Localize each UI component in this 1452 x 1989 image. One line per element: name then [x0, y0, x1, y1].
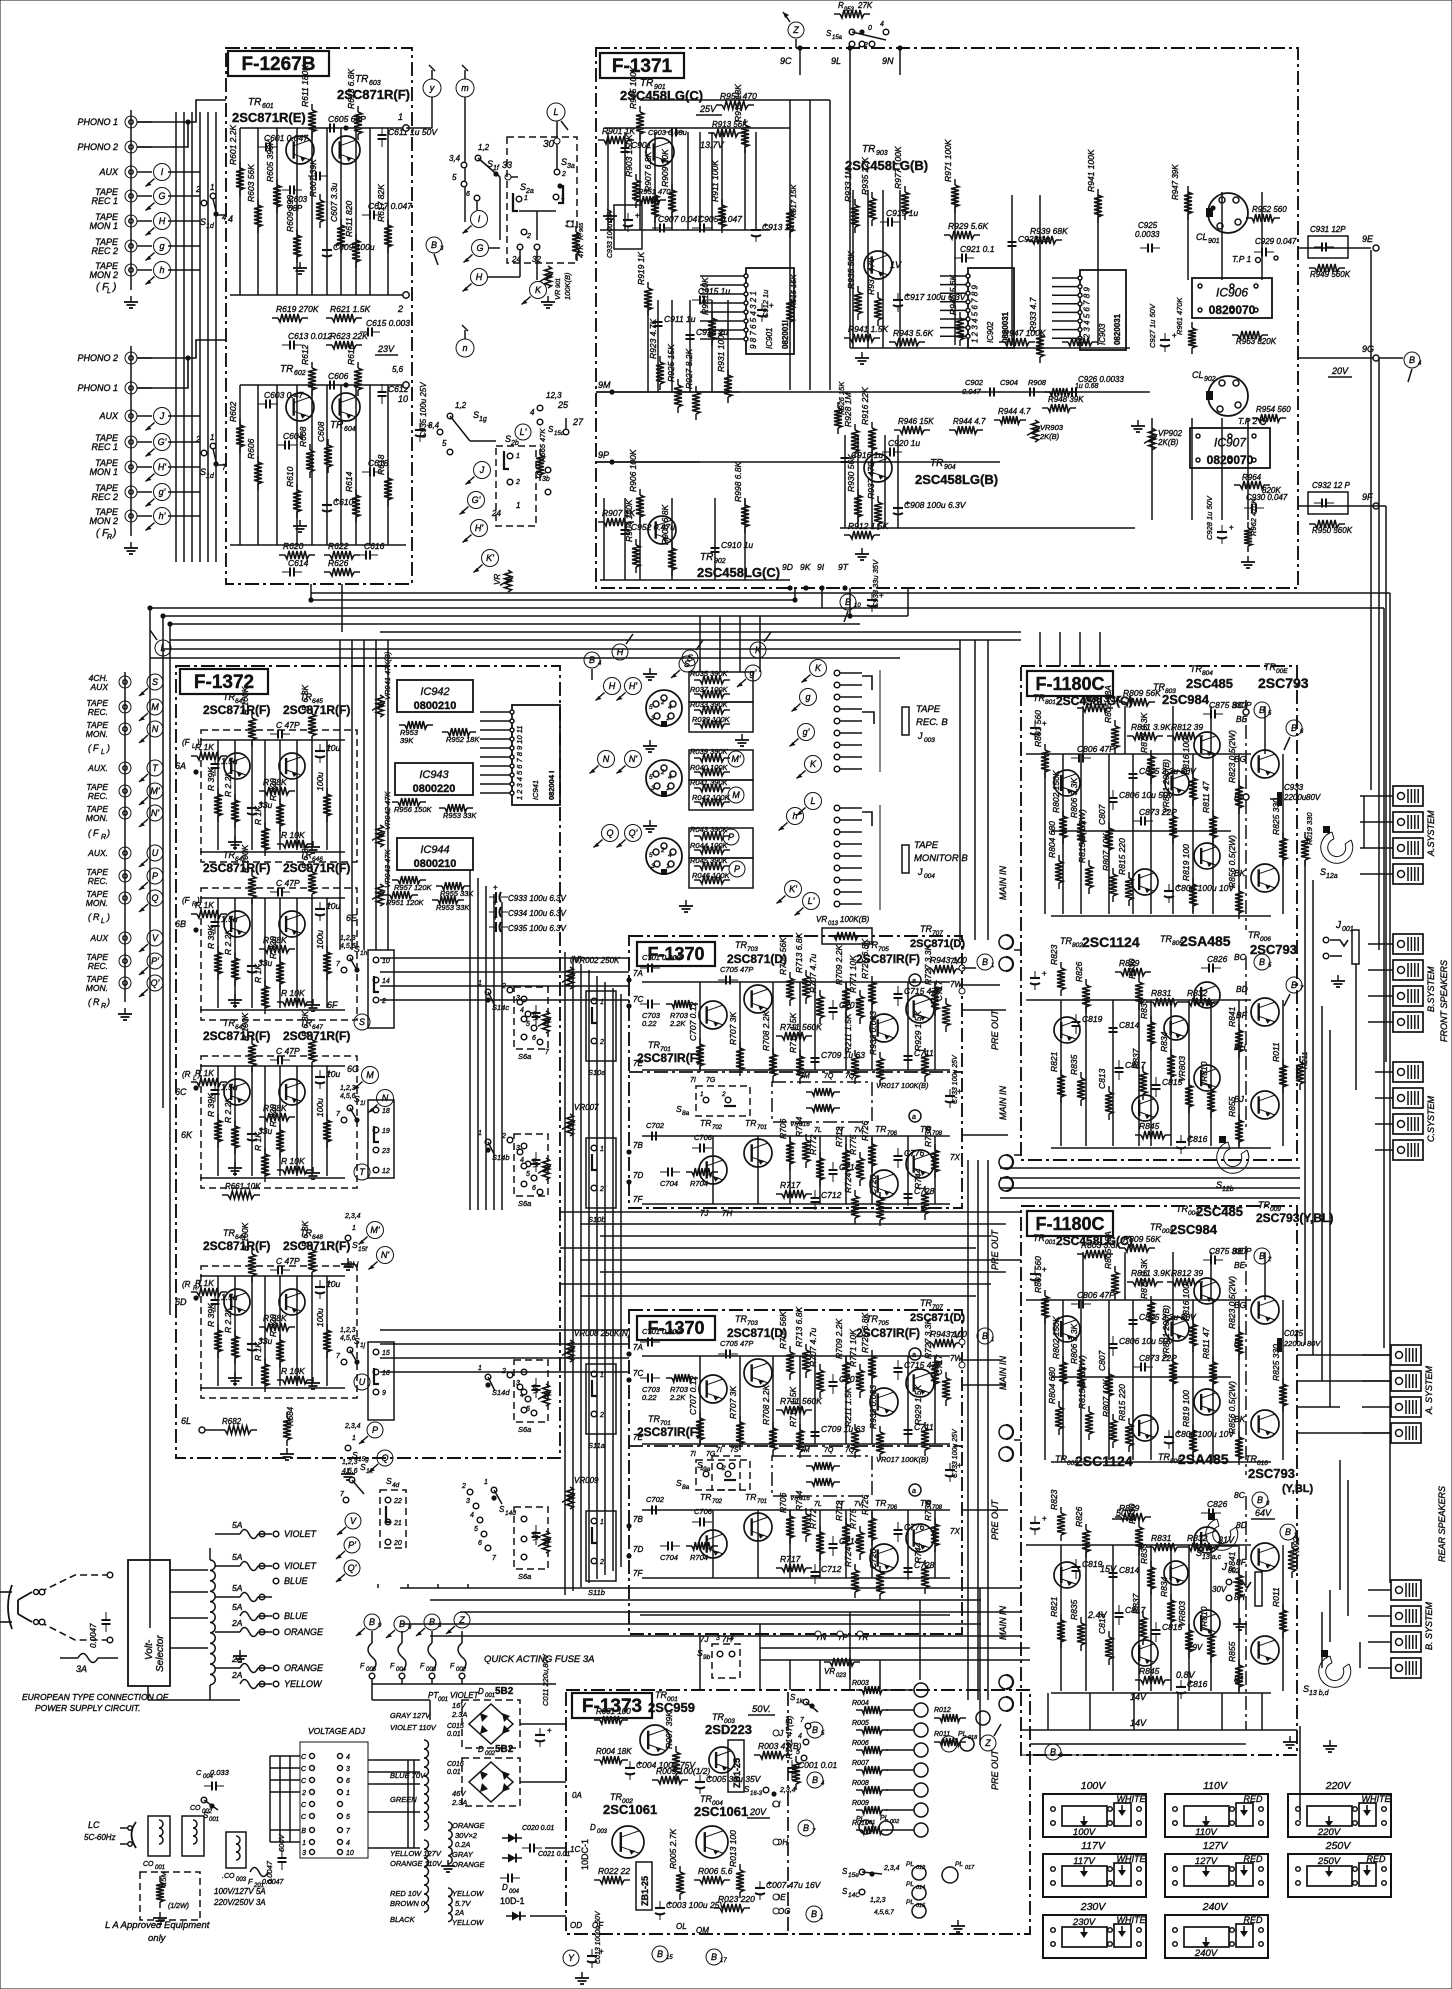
svg-text:1: 1 [516, 501, 520, 510]
lower rail wires [240, 384, 406, 386]
svg-text:R724: R724 [843, 1172, 853, 1193]
voltage selector panel 230V [1043, 1915, 1146, 1958]
svg-text:PHONO 2: PHONO 2 [77, 353, 118, 363]
svg-text:2A: 2A [454, 1908, 464, 1917]
svg-text:2SC984: 2SC984 [1162, 692, 1210, 707]
svg-text:R011: R011 [934, 1731, 950, 1738]
svg-text:R: R [576, 234, 585, 240]
R903 5.6K etc under IC902 [999, 341, 1005, 343]
svg-text:0820070: 0820070 [1207, 453, 1254, 467]
svg-text:RED: RED [1243, 1794, 1263, 1804]
svg-text:TR: TR [862, 144, 875, 155]
svg-text:C826: C826 [1207, 954, 1228, 964]
svg-text:R004 18K: R004 18K [596, 1747, 632, 1756]
svg-text:2SC1124: 2SC1124 [1082, 934, 1140, 950]
TR904 components [844, 450, 846, 458]
H socket resistor rows [689, 672, 753, 702]
svg-text:AUX: AUX [90, 682, 109, 692]
svg-text:CL: CL [1192, 370, 1204, 380]
svg-text:ZB1-25: ZB1-25 [640, 1876, 650, 1906]
svg-text:23: 23 [381, 1148, 390, 1155]
svg-text:13 a,c: 13 a,c [1202, 1554, 1222, 1561]
svg-text:(: ( [88, 828, 92, 838]
connector B2 lower [1280, 1524, 1296, 1540]
wire bundle from F-1372 ICs down [469, 870, 471, 1210]
svg-text:7D: 7D [633, 1171, 643, 1180]
svg-text:1h: 1h [360, 950, 368, 957]
svg-text:R937 470: R937 470 [866, 462, 876, 499]
svg-text:TR: TR [280, 364, 293, 375]
R954 560 [1252, 417, 1258, 419]
svg-text:7S: 7S [730, 1447, 739, 1454]
svg-text:TR: TR [1060, 936, 1072, 946]
svg-text:39K: 39K [400, 736, 414, 745]
svg-text:13 b,d: 13 b,d [1309, 1690, 1330, 1697]
svg-text:R037 100K: R037 100K [690, 685, 729, 694]
svg-text:+: + [493, 883, 498, 892]
svg-text:R713 6.8K: R713 6.8K [794, 933, 804, 973]
svg-text:12: 12 [382, 1168, 390, 1175]
svg-text:7J: 7J [700, 1209, 709, 1218]
svg-text:R803 3.3K: R803 3.3K [1081, 1240, 1121, 1250]
svg-text:R823: R823 [1049, 944, 1059, 965]
horizontal buses below F-1370 #2 [400, 1587, 1021, 1589]
svg-text:2SC871R(F): 2SC871R(F) [283, 1239, 350, 1253]
svg-text:R856 0.5(2W): R856 0.5(2W) [1227, 1381, 1237, 1434]
svg-text:R617 82K: R617 82K [376, 184, 386, 222]
svg-text:K: K [755, 645, 762, 655]
svg-text:B. SYSTEM: B. SYSTEM [1424, 1601, 1434, 1650]
svg-text:4d: 4d [392, 1482, 400, 1489]
svg-text:R943 5.6K: R943 5.6K [893, 328, 933, 338]
svg-text:L: L [193, 1076, 196, 1082]
svg-text:5: 5 [526, 1021, 530, 1028]
svg-text:4: 4 [346, 1840, 350, 1847]
svg-text:g': g' [750, 668, 757, 678]
svg-text:PHONO 1: PHONO 1 [77, 383, 118, 393]
svg-text:002: 002 [890, 1819, 899, 1825]
horizontal buses between F-1370 sections [560, 1211, 1021, 1213]
svg-text:R945 5.6K: R945 5.6K [948, 275, 958, 315]
R661 10K R680 resistors [222, 1194, 228, 1196]
svg-text:68P: 68P [288, 204, 303, 213]
svg-text:R954 560: R954 560 [1256, 405, 1291, 414]
svg-text:R772: R772 [808, 1508, 818, 1529]
svg-text:WHITE: WHITE [1362, 1794, 1392, 1804]
svg-text:20: 20 [393, 1540, 402, 1547]
svg-text:R 6.8K: R 6.8K [300, 1221, 310, 1247]
speaker terminals B system rear [1391, 1580, 1421, 1600]
svg-text:R616: R616 [346, 344, 356, 365]
svg-text:1g: 1g [479, 416, 487, 423]
svg-text:0.01: 0.01 [447, 1731, 461, 1738]
svg-text:VR007: VR007 [574, 1103, 599, 1112]
svg-text:): ) [112, 528, 116, 539]
R952 560 [1246, 217, 1252, 219]
svg-text:G: G [158, 191, 165, 201]
svg-text:10DC-1: 10DC-1 [580, 1839, 590, 1870]
svg-text:B: B [1259, 957, 1265, 967]
svg-text:PHONO 1: PHONO 1 [77, 117, 118, 127]
svg-text:R943 100: R943 100 [930, 955, 967, 965]
R947 39K [1187, 186, 1189, 192]
svg-text:2200u: 2200u [1283, 793, 1307, 802]
svg-text:0.0033: 0.0033 [1135, 230, 1160, 239]
svg-text:4: 4 [470, 1512, 474, 1519]
svg-text:B: B [812, 1775, 818, 1785]
svg-text:R708 2.2K: R708 2.2K [761, 1011, 771, 1051]
svg-text:B: B [982, 957, 988, 967]
svg-text:C935 100u 25V: C935 100u 25V [419, 382, 428, 438]
svg-text:1: 1 [600, 1146, 604, 1153]
connector circles L h K' L' left of J004 [805, 793, 822, 810]
svg-text:C021 0.01: C021 0.01 [538, 1851, 570, 1858]
svg-text:C938 33u 35V: C938 33u 35V [871, 559, 880, 608]
svg-text:(: ( [88, 743, 92, 753]
board F-1373 label box [572, 1693, 652, 1718]
second stage RC ladder [657, 314, 659, 322]
svg-text:4: 4 [598, 661, 602, 667]
svg-text:117V: 117V [1073, 1856, 1096, 1867]
svg-text:H': H' [158, 462, 166, 472]
svg-text:B: B [301, 1828, 306, 1835]
svg-text:TR: TR [355, 74, 368, 85]
svg-text:9N: 9N [882, 56, 894, 66]
svg-text:1u 0.68: 1u 0.68 [1075, 383, 1098, 390]
capacitor 0.0047 euro [105, 1612, 107, 1620]
svg-text:TR: TR [1150, 1222, 1162, 1232]
svg-text:R931 100K: R931 100K [716, 329, 726, 372]
svg-text:4,5,6,7: 4,5,6,7 [874, 1909, 894, 1916]
speaker terminals A system rear [1391, 1345, 1421, 1365]
svg-text:AUX.: AUX. [87, 848, 108, 858]
svg-text:R826: R826 [1074, 961, 1084, 982]
svg-text:D: D [478, 1687, 484, 1696]
svg-text:R 1K: R 1K [253, 1342, 263, 1361]
svg-text:C928 1u 50V: C928 1u 50V [1205, 495, 1214, 540]
svg-text:TR: TR [1055, 1454, 1067, 1464]
svg-text:7A: 7A [633, 969, 643, 978]
svg-text:TR: TR [1258, 1200, 1270, 1210]
svg-text:5C-60Hz: 5C-60Hz [84, 1833, 116, 1842]
svg-text:R708 2.2K: R708 2.2K [761, 1385, 771, 1425]
ORANGE 30Vx2 winding [448, 1822, 452, 1830]
svg-text:YELLOW: YELLOW [452, 1918, 484, 1927]
svg-text:TR: TR [223, 1228, 235, 1238]
FR phono wires into board [137, 340, 226, 358]
svg-text:C: C [301, 1766, 307, 1773]
svg-text:H: H [609, 681, 616, 691]
ZB1-25 block left [636, 1862, 652, 1910]
svg-text:7Q: 7Q [824, 1447, 834, 1454]
secondary transformer winding [424, 1740, 429, 1749]
connector B7 lower [1286, 977, 1302, 993]
svg-text:R805 18A: R805 18A [1103, 685, 1113, 723]
svg-text:10: 10 [398, 394, 408, 404]
svg-text:H': H' [475, 523, 483, 533]
svg-text:4: 4 [798, 1733, 802, 1740]
svg-text:R744: R744 [913, 1542, 923, 1563]
svg-text:R877 3.3K: R877 3.3K [1139, 713, 1149, 753]
svg-text:082004 I: 082004 I [547, 771, 556, 800]
CO001 CO002 coil boxes [148, 1816, 170, 1856]
svg-text:C908 100u 6.3V: C908 100u 6.3V [904, 500, 967, 510]
svg-text:F-1180C: F-1180C [1035, 1214, 1104, 1234]
svg-text:110V: 110V [1203, 1780, 1228, 1792]
svg-text:R 10K: R 10K [281, 988, 305, 998]
board F-1180C #2 label box [1027, 1211, 1113, 1236]
svg-text:S6a: S6a [518, 1199, 531, 1208]
rotary switch S13a,c [1206, 1519, 1238, 1550]
svg-text:3: 3 [440, 246, 444, 252]
svg-text:R 2.2K: R 2.2K [223, 929, 233, 955]
R917 15K mid [789, 204, 791, 210]
svg-text:1,2: 1,2 [455, 401, 467, 410]
voltage selector panel 110V [1165, 1794, 1268, 1837]
svg-text:MON 2: MON 2 [89, 270, 118, 280]
svg-text:004: 004 [396, 1667, 407, 1673]
C935 100u 25V cap right [419, 423, 421, 430]
svg-text:PL: PL [955, 1861, 963, 1868]
svg-text:F: F [93, 743, 99, 753]
svg-text:R 39K: R 39K [206, 1303, 216, 1327]
svg-text:R042 100K: R042 100K [692, 793, 731, 802]
svg-text:C873 22P: C873 22P [1139, 807, 1177, 817]
connector circles below F-1373 [563, 1950, 579, 1966]
svg-text:001: 001 [209, 1817, 219, 1823]
svg-text:R602: R602 [228, 401, 238, 422]
svg-text:10u: 10u [326, 1069, 340, 1079]
svg-text:Selector: Selector [155, 1635, 166, 1672]
connector circles S M N mid [354, 1014, 370, 1030]
svg-text:1: 1 [352, 1435, 356, 1442]
svg-text:h: h [159, 265, 164, 275]
svg-text:5A: 5A [232, 1520, 243, 1530]
svg-text:2SC871R(F): 2SC871R(F) [203, 1239, 270, 1253]
svg-text:16: 16 [382, 1370, 390, 1377]
svg-text:C603: C603 [288, 195, 308, 204]
svg-text:6: 6 [532, 1035, 536, 1042]
svg-text:100K(B): 100K(B) [563, 272, 572, 300]
svg-text:R: R [101, 1003, 106, 1010]
R956 150K R955 33K resistors [392, 801, 398, 803]
svg-text:R971 100K: R971 100K [943, 139, 953, 182]
svg-text:1: 1 [398, 112, 403, 122]
svg-text:1: 1 [666, 863, 670, 870]
svg-text:5: 5 [649, 774, 653, 781]
svg-text:REC. B: REC. B [916, 717, 948, 728]
svg-text:4: 4 [1418, 361, 1422, 367]
svg-text:C925: C925 [1138, 221, 1158, 230]
svg-text:g: g [805, 692, 810, 702]
svg-text:10u: 10u [326, 743, 340, 753]
R957 120K R955 33K resistors [392, 879, 398, 881]
svg-text:PL: PL [880, 1815, 889, 1822]
svg-text:CO: CO [143, 1861, 154, 1868]
svg-text:2SC1061: 2SC1061 [694, 1804, 748, 1819]
svg-text:R003: R003 [852, 1680, 869, 1687]
svg-text:(F: (F [182, 738, 191, 747]
C011 220u 80V cap [539, 1728, 541, 1735]
svg-text:3b: 3b [542, 476, 550, 483]
svg-text:R045 390K: R045 390K [690, 856, 729, 865]
switch S2a S3a dashed box [507, 137, 577, 263]
bus junction dots top [308, 597, 313, 602]
svg-text:C615 0.003: C615 0.003 [366, 318, 410, 328]
svg-text:I: I [478, 214, 481, 224]
svg-text:2: 2 [301, 1790, 306, 1797]
svg-text:B: B [1050, 1747, 1056, 1757]
svg-text:C934 100u 6.3V: C934 100u 6.3V [508, 909, 566, 918]
F-1373 right components [754, 1754, 760, 1756]
board F-1370 #2 [629, 1310, 962, 1634]
board F-1372 border [176, 666, 560, 1458]
svg-text:012: 012 [916, 1865, 925, 1871]
svg-text:9K: 9K [800, 562, 811, 572]
svg-text:F-1180C: F-1180C [1035, 674, 1104, 694]
svg-text:0800220: 0800220 [413, 783, 456, 795]
svg-text:OM: OM [696, 1926, 709, 1935]
svg-text:R811 47: R811 47 [1201, 781, 1211, 813]
svg-text:2: 2 [381, 998, 386, 1005]
svg-text:3,4: 3,4 [449, 154, 461, 163]
svg-text:R715 1.5K: R715 1.5K [788, 1013, 798, 1053]
VOLTAGE ADJ box feed wires [270, 1755, 300, 1757]
wires from F-1371 right to CL tubes [1298, 247, 1371, 249]
svg-text:L': L' [520, 427, 527, 437]
bottom bus verticals to fuse circles [377, 1584, 379, 1588]
svg-text:VIOLET: VIOLET [284, 1561, 318, 1571]
svg-text:R812 39: R812 39 [1171, 722, 1203, 732]
svg-text:C704: C704 [660, 1553, 678, 1562]
svg-text:R855: R855 [1227, 1641, 1237, 1662]
svg-text:R726: R726 [860, 1494, 870, 1515]
svg-text:C 47P: C 47P [276, 720, 300, 730]
svg-text:P: P [372, 1425, 378, 1435]
svg-text:7E: 7E [633, 1059, 643, 1068]
svg-text:MAIN IN: MAIN IN [998, 865, 1008, 900]
svg-text:9: 9 [378, 1623, 382, 1629]
svg-text:2SC87IR(F): 2SC87IR(F) [637, 1425, 701, 1439]
svg-text:C712: C712 [821, 1190, 842, 1200]
svg-text:L: L [107, 288, 111, 295]
svg-text:2: 2 [461, 1483, 466, 1490]
svg-text:F-1371: F-1371 [612, 56, 673, 77]
TR902 components [598, 521, 604, 523]
svg-text:PL: PL [958, 1731, 967, 1738]
svg-text:7: 7 [812, 1829, 816, 1835]
svg-text:VR: VR [493, 574, 502, 585]
R665 27K resistor mid [539, 449, 541, 455]
svg-text:C: C [301, 1754, 307, 1761]
svg-text:BE: BE [1232, 1246, 1244, 1256]
svg-text:R877 3.3K: R877 3.3K [1139, 1259, 1149, 1299]
svg-text:TR: TR [648, 1414, 660, 1424]
tube CL901 [1208, 193, 1248, 233]
svg-text:YELLOW 127V: YELLOW 127V [390, 1849, 442, 1858]
svg-text:C733 100u 25V: C733 100u 25V [952, 1428, 959, 1478]
svg-text:TR: TR [875, 1498, 886, 1508]
svg-text:C910 1u: C910 1u [721, 540, 753, 550]
svg-text:R815 B(1/2W): R815 B(1/2W) [1077, 1355, 1087, 1409]
svg-text:R606: R606 [246, 438, 256, 459]
svg-text:R948 39K: R948 39K [1048, 395, 1084, 404]
F-1267B upper amp components [258, 146, 266, 148]
fuse common wire [372, 1683, 556, 1685]
TAPE MONITOR B jack J004 [834, 805, 840, 811]
svg-text:R 58K: R 58K [263, 1313, 287, 1323]
svg-text:R009 100(1/2): R009 100(1/2) [656, 1766, 711, 1776]
svg-text:LC: LC [88, 1820, 100, 1830]
svg-text:VR: VR [816, 915, 827, 924]
svg-text:L': L' [808, 896, 815, 906]
svg-text:R830: R830 [1127, 958, 1137, 979]
svg-text:R951 120K: R951 120K [386, 898, 425, 907]
svg-text:P': P' [348, 1540, 356, 1550]
svg-text:MAIN IN: MAIN IN [998, 1605, 1008, 1640]
svg-text:R618: R618 [376, 454, 386, 475]
svg-text:TR: TR [1190, 664, 1202, 674]
svg-text:0.22: 0.22 [642, 1019, 657, 1028]
svg-text:R771 10K: R771 10K [848, 955, 858, 993]
svg-text:2: 2 [721, 1091, 726, 1098]
R963 820K [1232, 334, 1238, 336]
european mains plug [18, 1592, 32, 1622]
svg-text:R211 1.5K: R211 1.5K [843, 1387, 853, 1427]
svg-text:PRE OUT: PRE OUT [990, 1008, 1000, 1050]
svg-text:C911 1u: C911 1u [664, 314, 696, 324]
svg-text:9: 9 [382, 1390, 386, 1397]
svg-text:FRONT SPEAKERS: FRONT SPEAKERS [1439, 960, 1449, 1042]
svg-text:N: N [603, 754, 610, 764]
IC901 pin wires [700, 275, 746, 277]
C912 1u [761, 303, 763, 310]
svg-text:R724: R724 [843, 1546, 853, 1567]
svg-text:y: y [429, 83, 435, 93]
svg-text:TR: TR [920, 924, 932, 934]
voltage selector panel 127V [1165, 1854, 1268, 1897]
connector circles V P' Q' bottom [345, 1513, 361, 1529]
svg-text:n: n [462, 343, 467, 353]
svg-text:230V: 230V [1080, 1901, 1107, 1913]
svg-text:B: B [1291, 980, 1297, 990]
svg-text:3: 3 [1059, 1753, 1063, 1759]
svg-text:R964: R964 [1242, 473, 1262, 482]
svg-text:100u: 100u [315, 772, 325, 791]
svg-text:8: 8 [1266, 1501, 1270, 1507]
connectors I G H K [471, 211, 488, 228]
svg-text:8: 8 [408, 1625, 412, 1631]
svg-text:5: 5 [442, 439, 447, 448]
svg-text:TR: TR [223, 850, 235, 860]
voltage selector panel 117V [1043, 1854, 1146, 1897]
svg-text:R815 B(1/2W): R815 B(1/2W) [1077, 809, 1087, 863]
svg-text:): ) [106, 828, 110, 838]
svg-text:(F: (F [182, 896, 191, 905]
svg-text:): ) [112, 282, 116, 293]
svg-text:R802 150K: R802 150K [1051, 1316, 1061, 1359]
svg-text:902: 902 [714, 558, 726, 565]
svg-text:): ) [106, 743, 110, 753]
board F-1371 label box [600, 53, 684, 78]
svg-text:2SC485: 2SC485 [1196, 1204, 1243, 1219]
svg-text:1C: 1C [570, 1845, 580, 1854]
svg-text:BI: BI [1234, 792, 1243, 802]
svg-text:6G: 6G [347, 1064, 359, 1074]
svg-text:VR017 100K(B): VR017 100K(B) [876, 1455, 929, 1464]
board F-1180C #2 border [1021, 1206, 1297, 1755]
svg-text:C813: C813 [1097, 1068, 1107, 1089]
